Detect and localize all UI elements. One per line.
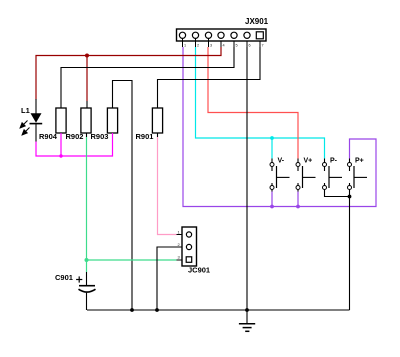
svg-text:R901: R901 <box>136 132 154 141</box>
node P buttons junction <box>348 195 352 199</box>
connector JC901 pin numbers <box>178 230 181 260</box>
wire pin7 black net (to R901 top) <box>158 47 261 108</box>
wire pin6 black net (straight down to ground rail) <box>246 47 248 310</box>
pushbutton P- <box>323 158 343 190</box>
svg-text:3: 3 <box>210 44 212 48</box>
wire pink net (R901 bottom to JC901 pin1) <box>158 137 177 235</box>
connector JX901 pin numbers <box>184 44 264 48</box>
svg-text:6: 6 <box>249 44 251 48</box>
wire cyan branch to V- top <box>271 138 273 159</box>
node rail JC901 pin2 <box>155 308 159 312</box>
wire R902 top stub <box>86 101 88 108</box>
LED L1 <box>30 113 43 123</box>
wire pin2 cyan net (to V- and P- tops) <box>196 47 325 159</box>
connector JX901 body <box>177 29 267 41</box>
wire dark-red branch to R902 top <box>86 56 88 102</box>
wire pin1 purple net (to button bottoms rail and P+ top) <box>183 47 376 207</box>
wire ground rail <box>87 309 350 311</box>
connector JC901 pin stubs <box>177 235 183 261</box>
pushbutton V+ <box>296 158 316 207</box>
svg-text:5: 5 <box>236 44 238 48</box>
wire R902 bottom stub <box>86 133 88 137</box>
wire P junction down to ground rail <box>349 197 351 311</box>
resistor R904 <box>56 108 66 133</box>
node rail R903 loop <box>130 308 134 312</box>
svg-text:2: 2 <box>197 44 199 48</box>
svg-text:L1: L1 <box>21 106 30 115</box>
svg-text:V-: V- <box>278 158 285 165</box>
svg-text:P-: P- <box>330 158 338 165</box>
pushbutton V- <box>270 158 290 207</box>
wire magenta bus (LED, R904, R903 bottoms) <box>36 133 113 156</box>
wire JC901 pin2 black to ground rail <box>157 247 177 310</box>
wire pin4 dark-red net (to LED anode and R902 top) <box>36 47 221 100</box>
svg-text:4: 4 <box>223 44 225 48</box>
wire R904 bottom lead magenta <box>60 133 62 156</box>
svg-text:V+: V+ <box>304 158 313 165</box>
wire green branch to JC901 <box>87 259 177 261</box>
wire P- / P+ bottoms to ground rail <box>325 190 350 197</box>
wire R903 top loop to ground rail <box>113 81 133 311</box>
node rail ground <box>245 308 249 312</box>
wire pin3 red net (to V+ top) <box>208 47 298 159</box>
wire LED anode stub <box>35 99 37 114</box>
svg-text:R903: R903 <box>91 132 109 141</box>
connector JC901 body <box>182 227 197 266</box>
wire green net (R902 bottom to C901 top and JC901 pin3) <box>86 137 88 272</box>
ground <box>239 310 255 331</box>
node purple rail / V+ bottom <box>296 205 300 209</box>
node purple rail / V- bottom <box>270 205 274 209</box>
wire R901 bottom stub <box>157 133 159 137</box>
node cyan junction at V- column <box>270 136 274 140</box>
svg-text:R904: R904 <box>39 132 58 141</box>
svg-text:JC901: JC901 <box>188 266 210 275</box>
capacitor C901 plus sign <box>76 276 82 282</box>
wire LED cathode stub <box>35 124 37 142</box>
svg-text:C901: C901 <box>55 273 73 282</box>
LED light arrows <box>20 121 29 135</box>
wire P+ bottom stub <box>349 190 351 197</box>
resistor R901 <box>152 108 162 133</box>
resistor R903 <box>107 108 117 133</box>
wire pin5 black net (to R904 top) <box>61 47 234 108</box>
svg-text:JX901: JX901 <box>245 17 269 26</box>
svg-text:P+: P+ <box>355 158 364 165</box>
svg-text:7: 7 <box>262 44 264 48</box>
pushbutton P+ <box>348 158 368 190</box>
capacitor C901 <box>79 272 96 310</box>
connector JX901 pin stubs <box>183 39 261 48</box>
resistor R902 <box>81 108 91 133</box>
node magenta junction R904 <box>59 154 62 157</box>
svg-text:R902: R902 <box>66 132 84 141</box>
node dark-red junction <box>85 54 89 58</box>
svg-text:1: 1 <box>184 44 186 48</box>
node green junction <box>85 258 89 262</box>
